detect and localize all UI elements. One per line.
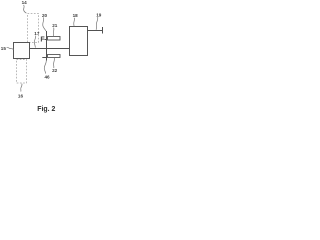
svg-text:21: 21 [52, 23, 58, 28]
reservoir (dashed rectangle) 14 [28, 14, 39, 43]
leader for 20 [43, 17, 46, 31]
svg-text:19: 19 [96, 12, 102, 17]
F arm tick [45, 39, 47, 41]
top plate 21 [48, 37, 61, 41]
tank rectangle 18 [70, 27, 88, 56]
leader for 46 [44, 60, 46, 73]
leader for 15 [7, 47, 14, 49]
leader for 16 [21, 84, 22, 92]
svg-text:18: 18 [73, 13, 79, 18]
background [0, 0, 104, 120]
leader for 14 [24, 5, 27, 13]
leader for 22 [52, 58, 55, 68]
pedal rod (dashed rectangle) 16 [17, 60, 27, 84]
svg-text:20: 20 [42, 13, 48, 18]
leader for 21 [52, 28, 55, 37]
leader for 19 [96, 17, 98, 30]
bottom tick [42, 57, 46, 59]
svg-text:17: 17 [34, 31, 40, 36]
svg-text:14: 14 [22, 0, 28, 5]
leader for 18 [73, 18, 76, 27]
svg-text:16: 16 [18, 93, 24, 98]
svg-text:F: F [40, 37, 45, 44]
master cylinder rectangle 15 [14, 43, 30, 59]
bottom plate 22 [48, 55, 61, 58]
svg-text:15: 15 [1, 46, 7, 51]
svg-text:Fig. 2: Fig. 2 [37, 106, 55, 113]
actuation rod 20 (vertical line) [46, 31, 48, 61]
svg-text:46: 46 [45, 74, 51, 79]
svg-text:22: 22 [52, 68, 58, 73]
stub end tick [102, 27, 104, 34]
leader for 17 [34, 36, 35, 48]
stub line on tank right [88, 30, 103, 32]
wire 17 (pressure line) [29, 48, 69, 50]
